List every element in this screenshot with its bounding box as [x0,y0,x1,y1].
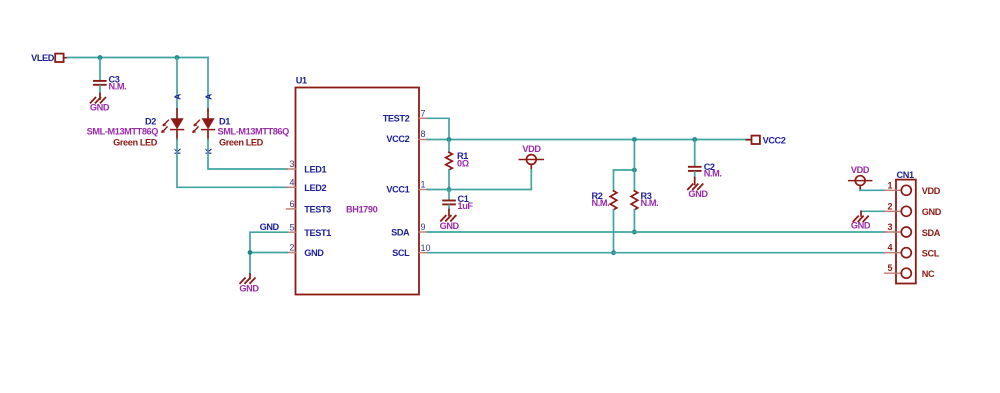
svg-text:GND: GND [851,220,871,230]
svg-text:1: 1 [887,180,892,190]
svg-text:LED1: LED1 [304,165,326,175]
svg-text:D2: D2 [145,116,156,126]
svg-text:U1: U1 [296,76,307,86]
svg-text:8: 8 [421,129,426,139]
pin 3 SDA [885,222,941,238]
wire SCL net [428,252,885,254]
pin 1 VCC1 [386,180,429,195]
svg-text:A: A [203,94,213,100]
wire VDD to CN1 pin1 [860,189,884,191]
svg-text:5: 5 [887,263,892,273]
svg-text:VDD: VDD [922,186,941,196]
svg-text:4: 4 [887,243,892,253]
svg-text:TEST2: TEST2 [383,114,410,124]
svg-text:9: 9 [421,222,426,232]
svg-text:SCL: SCL [392,248,410,258]
svg-text:SDA: SDA [922,228,941,238]
wire VCC1 net [428,189,532,191]
svg-text:GND: GND [922,207,942,217]
wire VLED top net [68,57,209,59]
ground under U1 [239,274,259,294]
svg-text:SML-M13MTT86Q: SML-M13MTT86Q [87,127,159,137]
svg-text:SCL: SCL [922,249,940,259]
capacitor C3 [94,58,126,94]
svg-text:GND: GND [260,222,280,232]
node junction R1 top [447,137,452,142]
wire GND pin2 [250,252,287,254]
pin 3 LED1 [287,159,327,174]
pin 8 VCC2 [386,129,429,144]
wire TEST2 to VCC2 net [428,118,450,139]
capacitor C2 [689,140,722,179]
svg-text:GND: GND [688,189,708,199]
svg-text:VCC2: VCC2 [763,136,786,146]
capacitor C1 [443,190,473,211]
svg-text:10: 10 [421,243,431,253]
connector CN1 [896,170,916,284]
pin 9 SDA [391,222,429,237]
resistor R3 [631,140,658,233]
svg-text:5: 5 [289,222,294,232]
resistor R2 [592,170,635,253]
svg-text:6: 6 [289,199,294,209]
svg-text:GND: GND [239,284,259,294]
pin 4 SCL [885,243,940,259]
power VDD near CN1 [849,165,872,190]
svg-text:3: 3 [887,222,892,232]
power VDD near R1 [519,144,543,170]
resistor R1 [446,140,469,190]
svg-text:D1: D1 [219,116,230,126]
svg-text:LED2: LED2 [304,183,326,193]
pin 5 NC [885,263,936,279]
pin 10 SCL [392,243,430,258]
svg-text:3: 3 [289,159,294,169]
node junction VCC1 [447,187,452,192]
svg-text:N.M.: N.M. [109,82,127,92]
svg-text:GND: GND [90,102,110,112]
svg-text:VLED: VLED [31,53,55,63]
svg-text:TEST1: TEST1 [304,228,331,238]
svg-text:N.M.: N.M. [704,169,722,179]
terminal VLED [31,53,67,63]
svg-text:N.M.: N.M. [592,198,610,208]
node junction C3 [98,55,103,60]
pin 7 TEST2 [383,109,430,124]
svg-text:GND: GND [304,248,324,258]
pin 2 GND [287,243,325,258]
ground under C2 [688,178,708,200]
node junction R2 bottom [611,250,616,255]
wire D2 to LED2 [177,140,287,188]
svg-text:TEST3: TEST3 [304,205,331,215]
pin 1 VDD [885,180,941,196]
pin 6 TEST3 [287,199,332,214]
svg-text:Green LED: Green LED [219,138,264,148]
wire VDD to VCC1 [530,170,532,190]
svg-text:GND: GND [440,221,460,231]
LED D2 [87,58,184,148]
ground near CN1 [851,211,871,230]
wire TEST1 to GND [250,232,287,274]
svg-text:4: 4 [289,178,294,188]
svg-text:VCC2: VCC2 [386,134,409,144]
pin 5 TEST1 [287,222,332,237]
svg-text:7: 7 [421,109,426,119]
svg-text:BH1790: BH1790 [346,205,378,215]
svg-text:1: 1 [421,180,426,190]
svg-text:0Ω: 0Ω [457,159,469,169]
node junction R3 bottom [632,230,637,235]
svg-text:VDD: VDD [522,144,541,154]
wire SDA net [428,231,885,233]
node junction D2 [175,55,180,60]
svg-text:1uF: 1uF [458,201,474,211]
svg-text:Green LED: Green LED [113,138,158,148]
svg-text:2: 2 [289,243,294,253]
LED D1 [192,58,289,148]
svg-text:NC: NC [922,269,935,279]
node junction C2 top [692,137,697,142]
node junction GND left [248,250,253,255]
terminal VCC2 [746,136,785,146]
wire VCC2 net [428,139,751,141]
IC U1 BH1790 [296,76,420,295]
wire GND to CN1 pin2 [861,210,885,212]
svg-text:N.M.: N.M. [641,198,659,208]
wire D1 to LED1 [208,140,287,170]
svg-text:SDA: SDA [391,227,410,237]
svg-text:VDD: VDD [851,165,870,175]
pin 4 LED2 [287,178,327,193]
svg-text:SML-M13MTT86Q: SML-M13MTT86Q [218,127,290,137]
ground under C1 [440,210,460,231]
pin 2 GND [885,201,942,217]
node junction R3 top [632,137,637,142]
svg-text:CN1: CN1 [897,170,914,180]
svg-text:A: A [172,94,182,100]
svg-text:2: 2 [887,201,892,211]
ground under C3 [90,94,110,113]
svg-text:VCC1: VCC1 [386,185,409,195]
node junction R2 top [632,168,637,173]
